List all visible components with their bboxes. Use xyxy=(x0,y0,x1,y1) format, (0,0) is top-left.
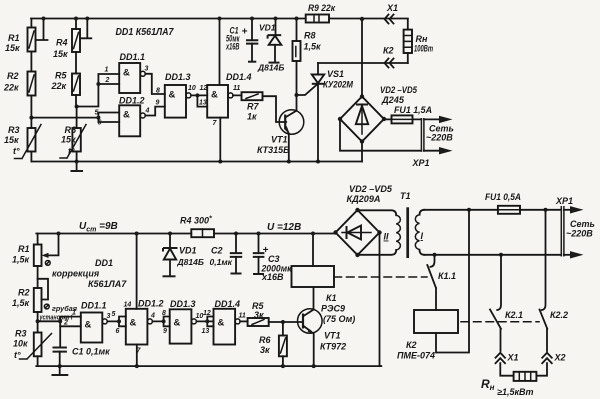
svg-text:15к: 15к xyxy=(61,135,76,145)
bridge rectifier VD2-VD5 KD209A xyxy=(333,184,393,257)
trimmer R1 1.5k (korrekcija) xyxy=(12,232,100,289)
svg-text:&: & xyxy=(211,90,218,101)
svg-text:VS1: VS1 xyxy=(327,69,344,79)
wire DD1.1 out to DD1.3 pin8 xyxy=(145,74,165,94)
svg-text:R2: R2 xyxy=(18,288,30,298)
op gate DD1.3 (bottom) xyxy=(170,299,204,344)
ground symbol xyxy=(71,160,84,172)
svg-text:13: 13 xyxy=(202,328,210,335)
mech link K2 dashed xyxy=(461,321,539,323)
svg-text:11: 11 xyxy=(239,313,246,320)
svg-text:КТ315Б: КТ315Б xyxy=(257,145,290,155)
wire bridge bottom to ground rail xyxy=(361,142,363,162)
svg-text:С2: С2 xyxy=(211,246,223,256)
wire DD1.2 out to DD1.3 pin9 xyxy=(145,107,165,116)
wire bridge top to rail node xyxy=(360,17,364,97)
svg-text:КД209А: КД209А xyxy=(347,194,381,204)
wire DD1.2 to DD1.3 (bottom) xyxy=(152,310,169,335)
chip label DD1 K561LA7 xyxy=(116,27,174,38)
wire divider R2/R3 to gate inputs 5,6 xyxy=(31,113,119,123)
wire mains upper lead (bottom circuit) xyxy=(424,208,561,212)
wire divider R5/R6 to gate inputs 1,2 xyxy=(77,74,120,107)
svg-text:~220В: ~220В xyxy=(426,133,453,143)
op gate DD1.3 xyxy=(156,72,196,118)
svg-text:VD1: VD1 xyxy=(179,246,197,256)
svg-text:Х1: Х1 xyxy=(386,3,398,13)
svg-text:ХР1: ХР1 xyxy=(412,158,430,168)
connector XP1 (top circuit) xyxy=(412,116,454,168)
svg-text:4: 4 xyxy=(145,108,150,115)
svg-text:КТ972: КТ972 xyxy=(320,342,346,352)
svg-text:Сеть: Сеть xyxy=(570,219,595,229)
resistor R4 300 (bottom) xyxy=(180,216,214,238)
svg-text:VT1: VT1 xyxy=(271,135,288,145)
resistor R2 22k xyxy=(3,71,36,118)
svg-text:10: 10 xyxy=(188,85,196,92)
svg-text:1: 1 xyxy=(72,310,76,317)
transformer T1 xyxy=(358,191,425,258)
svg-text:DD1.2: DD1.2 xyxy=(119,96,145,106)
svg-text:&: & xyxy=(123,110,130,121)
svg-text:t°: t° xyxy=(14,350,21,360)
svg-text:10к: 10к xyxy=(13,339,28,349)
svg-text:VT1: VT1 xyxy=(324,331,341,341)
transistor VT1 KT315B xyxy=(257,110,304,164)
svg-text:VD2 –VD5: VD2 –VD5 xyxy=(380,85,418,95)
svg-text:КУ202М: КУ202М xyxy=(323,80,353,90)
svg-text:К2.2: К2.2 xyxy=(550,310,568,320)
svg-text:R6: R6 xyxy=(65,125,77,135)
svg-text:(75 Ом): (75 Ом) xyxy=(323,314,355,324)
thyristor VS1 KU202M xyxy=(297,63,354,164)
connector XP1 (bottom circuit) xyxy=(555,196,595,259)
svg-text:R4: R4 xyxy=(56,38,68,48)
load resistor Rn 100W xyxy=(404,19,433,63)
svg-text:100Вт: 100Вт xyxy=(414,44,433,54)
svg-text:&: & xyxy=(85,320,92,331)
svg-text:3: 3 xyxy=(145,66,149,73)
svg-text:К561ЛА7: К561ЛА7 xyxy=(88,279,127,289)
label U=12V xyxy=(267,222,301,233)
svg-text:R5: R5 xyxy=(55,71,67,81)
svg-text:15к: 15к xyxy=(5,43,20,53)
svg-text:DD1: DD1 xyxy=(95,258,113,268)
svg-text:R1: R1 xyxy=(8,33,20,43)
svg-text:12: 12 xyxy=(200,85,208,92)
svg-text:≥1,5кВт: ≥1,5кВт xyxy=(497,387,534,397)
wire DD1 pin14 to rail xyxy=(218,17,222,86)
resistor R5 22k xyxy=(51,71,81,107)
svg-text:R1: R1 xyxy=(18,244,30,254)
svg-text:R3: R3 xyxy=(15,329,27,339)
wire DD1.1 to DD1.2 (bottom) xyxy=(107,311,126,335)
svg-text:DD1.4: DD1.4 xyxy=(226,72,252,82)
op gate DD1.4 (bottom) xyxy=(214,299,246,345)
op gate DD1.2 (bottom) xyxy=(124,299,164,355)
capacitor C1 0.1uF (bottom) xyxy=(53,326,111,368)
svg-text:К2.1: К2.1 xyxy=(505,310,523,320)
svg-text:С3: С3 xyxy=(268,254,280,264)
svg-text:DD1.3: DD1.3 xyxy=(170,299,196,309)
wire R2/R3 node to DD1.1 inputs xyxy=(38,310,81,327)
svg-text:РЭС9: РЭС9 xyxy=(321,304,345,314)
zener VD1 D814B xyxy=(257,17,284,73)
svg-text:Д814Б: Д814Б xyxy=(177,257,204,267)
ground symbol (bottom) xyxy=(52,366,69,375)
svg-text:FU1 1,5А: FU1 1,5А xyxy=(394,105,432,115)
resistor R7 1k xyxy=(233,92,286,122)
op gate DD1.1 xyxy=(105,52,149,93)
wire top supply rail xyxy=(31,18,408,20)
svg-text:&: & xyxy=(218,318,225,329)
svg-text:12: 12 xyxy=(203,310,211,317)
svg-text:3к: 3к xyxy=(254,310,264,320)
op gate DD1.2 xyxy=(95,96,150,137)
svg-text:0,1мк: 0,1мк xyxy=(210,257,233,267)
svg-text:&: & xyxy=(130,318,137,329)
chip label DD1 K561LA7 (bottom) xyxy=(88,258,127,289)
svg-text:Т1: Т1 xyxy=(400,191,411,201)
resistor R4 15k (trimmer) xyxy=(53,17,91,74)
wire DD1 pin7 to ground rail xyxy=(218,118,222,164)
svg-text:R9 22к: R9 22к xyxy=(308,3,335,13)
svg-text:К2: К2 xyxy=(383,46,394,56)
connector X1 (chevrons on rail) xyxy=(385,3,399,24)
svg-text:ПМЕ-074: ПМЕ-074 xyxy=(397,351,435,361)
svg-text:t°: t° xyxy=(68,146,75,156)
contact K1.1 xyxy=(427,255,456,310)
svg-text:6: 6 xyxy=(116,328,120,335)
svg-text:13: 13 xyxy=(199,100,207,107)
svg-text:8: 8 xyxy=(162,310,166,317)
fuse FU1 1.5A xyxy=(384,105,432,123)
svg-text:22к: 22к xyxy=(3,83,19,93)
svg-text:Х1: Х1 xyxy=(507,353,519,363)
trimmer R2 1.5k (grubaja ustanovka) xyxy=(12,279,78,322)
svg-text:1,5к: 1,5к xyxy=(12,298,30,308)
svg-text:1,5к: 1,5к xyxy=(12,255,30,265)
wire DD1.3 to DD1.4 (bottom) xyxy=(196,310,213,335)
thermistor R3 15k xyxy=(4,116,41,162)
svg-text:DD1.2: DD1.2 xyxy=(138,299,164,309)
relay coil K1 xyxy=(292,232,356,325)
svg-text:5: 5 xyxy=(95,110,99,117)
connector X1 (bottom, chevrons) xyxy=(496,353,519,376)
mech link K1 dashed xyxy=(334,276,427,278)
load Rn >=1.5kW xyxy=(481,372,536,397)
svg-text:DD1.3: DD1.3 xyxy=(165,72,191,82)
svg-text:DD1.1: DD1.1 xyxy=(81,301,107,311)
svg-text:К1.1: К1.1 xyxy=(438,271,456,281)
wire ground rail (top circuit) xyxy=(31,161,362,163)
svg-text:1к: 1к xyxy=(247,112,257,122)
capacitor C3 2000uF (bottom) xyxy=(253,232,292,283)
svg-text:~220В: ~220В xyxy=(566,229,593,239)
resistor R6 3k (bottom) xyxy=(259,322,287,368)
svg-text:8: 8 xyxy=(156,88,160,95)
svg-text:VD1: VD1 xyxy=(259,23,276,33)
resistor R8 1.5k (collector load) xyxy=(293,17,322,111)
svg-text:&: & xyxy=(169,90,176,101)
svg-text:х16В: х16В xyxy=(225,42,239,52)
svg-text:9: 9 xyxy=(163,328,167,335)
svg-text:U =12В: U =12В xyxy=(267,222,301,233)
svg-text:К1: К1 xyxy=(326,293,337,303)
zener VD1 D814B (bottom) xyxy=(163,232,204,277)
svg-text:Х2: Х2 xyxy=(554,353,566,363)
svg-text:R6: R6 xyxy=(259,335,271,345)
capacitor C1 50uF xyxy=(225,17,258,62)
svg-text:VD2 –VD5: VD2 –VD5 xyxy=(349,184,393,194)
svg-text:DD1.4: DD1.4 xyxy=(215,299,241,309)
svg-text:&: & xyxy=(123,68,130,79)
svg-text:R2: R2 xyxy=(7,71,19,81)
svg-text:коррекция: коррекция xyxy=(52,269,100,279)
svg-text:22к: 22к xyxy=(51,81,67,91)
svg-text:&: & xyxy=(174,318,181,329)
wire mains lower lead (bottom circuit) xyxy=(424,253,561,257)
transistor VT1 KT972 (bottom) xyxy=(298,309,347,368)
svg-text:Д814Б: Д814Б xyxy=(257,63,284,73)
svg-text:Д245: Д245 xyxy=(381,95,405,105)
contact K2.1 xyxy=(490,255,523,351)
contact K2.2 xyxy=(540,210,569,351)
resistor R9 22k xyxy=(306,3,336,23)
svg-text:2: 2 xyxy=(105,77,110,84)
wire bridge left to mains lower lead xyxy=(340,119,421,151)
svg-text:2: 2 xyxy=(63,320,68,327)
svg-text:4: 4 xyxy=(150,313,155,320)
wire DD1 pin14 to 9V rail (bottom) xyxy=(135,232,139,309)
svg-text:6: 6 xyxy=(98,120,102,127)
contact K2 (chevrons) and wire to VS1 anode xyxy=(318,46,408,68)
svg-text:DD1 К561ЛА7: DD1 К561ЛА7 xyxy=(116,27,174,38)
svg-text:3к: 3к xyxy=(260,345,270,355)
svg-text:DD1.1: DD1.1 xyxy=(120,52,146,62)
thermistor R3 10k (bottom) xyxy=(13,319,52,366)
label Ust=9V xyxy=(79,221,118,234)
wire DD1 pin7 to ground (bottom) xyxy=(135,345,139,369)
bridge rectifier VD2-VD5 D245 xyxy=(338,85,418,144)
thermistor R6 15k xyxy=(60,105,86,162)
svg-text:Uст =9В: Uст =9В xyxy=(79,221,118,234)
resistor R1 15k (trimmer) xyxy=(5,17,48,72)
svg-text:+: + xyxy=(242,27,248,38)
wire 9V supply rail xyxy=(36,233,335,235)
resistor R5 3k (bottom) xyxy=(240,301,303,326)
svg-text:t°: t° xyxy=(13,146,20,156)
capacitor C2 0.1uF (bottom) xyxy=(210,232,243,274)
svg-text:ХР1: ХР1 xyxy=(555,196,573,206)
op gate DD1.4 xyxy=(207,72,251,127)
relay coil K2 PME-074 xyxy=(397,210,469,361)
svg-text:1: 1 xyxy=(105,67,109,74)
svg-text:3: 3 xyxy=(107,313,111,320)
svg-text:К2: К2 xyxy=(406,340,417,350)
svg-text:15к: 15к xyxy=(53,49,68,59)
fuse FU1 0.5A (bottom) xyxy=(485,192,521,214)
svg-text:1,5к: 1,5к xyxy=(304,42,322,52)
svg-text:Rн: Rн xyxy=(416,34,428,44)
svg-text:R8: R8 xyxy=(304,31,316,41)
wire bridge minus to ground rail (bottom) xyxy=(380,233,382,367)
svg-text:II: II xyxy=(384,232,390,242)
connector X2 (bottom, chevrons) xyxy=(536,353,565,376)
svg-text:9: 9 xyxy=(156,100,160,107)
svg-text:R4 300*: R4 300* xyxy=(180,216,212,226)
op gate DD1.1 (bottom) xyxy=(81,301,111,343)
svg-text:11: 11 xyxy=(233,85,240,92)
svg-text:С1 0,1мк: С1 0,1мк xyxy=(72,347,110,357)
svg-text:х16В: х16В xyxy=(261,272,284,282)
wire DD1.3 out to DD1.4 pins 12,13 xyxy=(191,85,207,107)
svg-text:R3: R3 xyxy=(8,125,20,135)
wire ground rail (bottom circuit) xyxy=(36,365,381,367)
svg-text:R7: R7 xyxy=(247,102,259,112)
svg-text:5: 5 xyxy=(112,311,116,318)
svg-text:FU1 0,5А: FU1 0,5А xyxy=(485,192,521,202)
svg-text:14: 14 xyxy=(124,302,132,309)
svg-text:15к: 15к xyxy=(4,135,19,145)
